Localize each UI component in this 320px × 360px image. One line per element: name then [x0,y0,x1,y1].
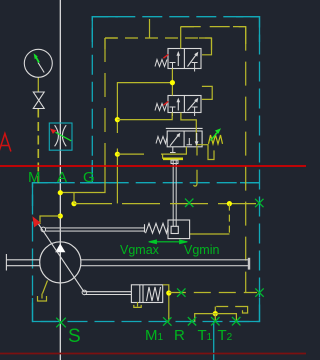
node A1 junction dot on centerline [58,190,63,195]
wire D2 to valve3 bottom port [117,147,186,154]
wire main pressure centerline (white, full height) [59,0,61,360]
node B1 junction dot [71,201,76,206]
green X plugged port at enclosure right [255,288,263,296]
svg-text:G: G [83,169,95,186]
wire valve2 right port loop [202,86,212,99]
wire inner box right edge [245,27,247,293]
enclosure corner overdraws (solid) [33,17,260,322]
actuator rod white cap [171,160,178,164]
wire drain line to enclosure edge (dashed) [169,292,257,294]
node A main red port line (overlay) [0,165,306,167]
node E junction dot [170,80,175,85]
T blocked port right cell [187,144,193,146]
T blocked port left cell [170,62,176,64]
wire junction E branch left and down [117,83,172,133]
pivot ring rod1 [41,227,46,232]
actuator rod top yellow cap [163,158,183,161]
wire drop to actuator rod top bar [162,154,164,159]
pump variable displacement arrow [37,222,84,292]
node G1 junction dot [166,290,171,295]
wire pilot line from B1 to plugged port X (dashed) [74,203,257,205]
wire corner overdraw y38 right [199,38,212,50]
tank symbol case drain [38,296,47,301]
enclosure pump housing boundary (cyan dashed) [33,17,260,322]
tank symbol below bias piston [134,305,141,308]
wire D1 to valve2 bottom-left port [117,113,172,120]
wire top pilot line y38 [105,37,212,39]
solenoid red stroke U1 [163,54,168,58]
valve V4 shut-off (bowtie) [33,92,44,109]
pump flow triangle [55,244,65,253]
wire corner overdraw y26.6 [181,27,246,44]
valve U3 bottom-left port stub [172,147,174,153]
node D2 junction dot [115,152,120,157]
up arrow left cell [177,53,179,66]
pivot ring lower [82,290,87,295]
node D1 junction dot [115,117,120,122]
suction port flange (left double line) [6,254,39,271]
bias piston cylinder [84,285,162,303]
node A main red port line [0,165,306,167]
svg-text:A: A [57,169,67,186]
pump P1 main circle [40,242,81,283]
wire riser to node H1 [214,307,216,314]
green X plugged port on pilot line [185,199,193,207]
solenoid U3 green proportional arrow [211,131,220,141]
filter variable arrow (green with red head) [56,132,72,141]
wire valve1 right port loop [202,38,212,55]
green X port R [188,317,196,325]
green X port T1 [211,317,219,325]
pump case drain to tank [43,281,48,294]
wire B1 riser from line A1 [73,193,75,204]
main rod2 to bias piston (double line, end cap) [81,258,249,270]
actuator piston rod (vertical double line) [171,160,178,226]
wire valve3 drain stub above red line [196,146,198,156]
spring U1 [155,60,167,67]
wire inner box left edge to node A1 (solid lower part) [60,145,105,193]
svg-text:Vgmax: Vgmax [120,243,160,257]
green X port S [56,318,66,328]
filter curves [55,125,67,146]
green dimension arrows Vg [149,240,188,244]
valve U3 proportional valve bottom [156,128,223,147]
green X plugged port X2 at enclosure edge [255,199,263,207]
svg-text:M: M [28,169,41,186]
red port label A [0,134,11,152]
T blocked port right cell [192,62,198,64]
node H1 junction dot [213,311,218,316]
diagonal arrow left cell [170,134,179,146]
gauge needle green arrow [34,53,38,59]
wire drain below red line with hook [194,170,198,186]
wire corner overdraw y38 left [105,38,117,49]
svg-text:S: S [68,326,81,347]
diagonal arrow right cell [188,54,198,67]
wire valve1 top port riser [180,27,182,49]
wire dark red bottom line (overlay) [0,353,306,355]
wire top pilot line y26.6 [181,26,246,28]
wire dark red bottom line [0,353,306,355]
wire inner box left edge (dashed upper part) [104,38,106,145]
wire drain header line (dashed) [216,306,238,308]
wire cylinder top to port M1 [163,285,169,322]
down arrow right cell [196,133,198,144]
wire gauge riser (yellow solid then dashed) [37,78,39,93]
svg-text:R: R [174,327,185,344]
spring U3 left [156,137,167,144]
wire valve2 bottom to valve3 top [181,113,214,160]
valve U1 solenoid valve top [155,49,201,72]
feedback rod1 (double line with pivot) [46,228,145,231]
solenoid U3 right yellow spring [209,135,223,144]
valve U3 down arrow overlay [195,133,199,146]
wire C1 to swash lever [40,216,60,224]
wire D2 drop continuation [116,149,118,204]
stroking piston spring and cylinder [145,220,190,239]
wire drain jog symbol [239,307,248,314]
green X port M1 [163,317,171,325]
wire H1 branches to ports R T1 T2 [195,314,237,322]
wire F1 drop to bias piston port (dashed) [228,204,230,234]
green X plugged port on drain line [177,288,185,296]
wire pilot riser x149.5 [149,19,151,38]
valve U2 solenoid valve middle [155,96,201,117]
wire port T1 line (cyan, to bottom edge) [213,322,215,360]
node C1 junction dot [58,213,63,218]
node F1 junction dot [227,201,232,206]
green X port T2 [232,317,240,325]
filter FL1 variable orifice (cyan box) [49,123,72,150]
gauge PG1 [24,49,52,77]
wire valve1 bottom to junction E [171,69,173,96]
svg-text:Vgmin: Vgmin [184,243,219,257]
enclosure control-module boundary (yellow dashed inner box) [60,27,245,293]
